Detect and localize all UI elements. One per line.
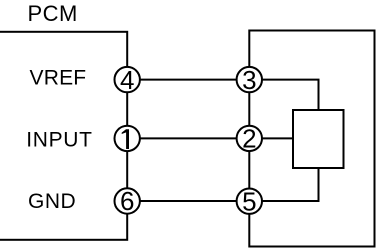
- wire pin 3 to sensor top: [249, 80, 318, 110]
- pin 4 (VREF, PCM side): [115, 65, 140, 95]
- sensor R1 (throttle position sensor): [293, 110, 344, 168]
- svg-text:6: 6: [120, 186, 134, 216]
- pin 1 (INPUT, PCM side): [115, 126, 140, 151]
- pin 2 (INPUT, sensor side): [237, 124, 262, 154]
- svg-text:INPUT: INPUT: [26, 128, 93, 151]
- svg-text:VREF: VREF: [30, 67, 87, 90]
- wire pin 2 to sensor left: [249, 137, 293, 139]
- svg-text:3: 3: [242, 65, 256, 95]
- svg-text:GND: GND: [28, 190, 76, 213]
- pin 5 (GND, sensor side): [237, 186, 262, 216]
- wire INPUT: pin 1 to pin 2: [127, 137, 249, 139]
- svg-text:4: 4: [120, 65, 134, 95]
- pin 3 (VREF, sensor side): [237, 65, 262, 95]
- wire VREF: pin 4 to pin 3: [127, 79, 249, 81]
- svg-text:5: 5: [242, 186, 256, 216]
- sensor connector box J1: [249, 31, 374, 247]
- pin 6 (GND, PCM side): [115, 186, 140, 216]
- svg-text:2: 2: [242, 124, 256, 154]
- wire GND: pin 6 to pin 5: [127, 200, 249, 202]
- PCM module box U1: [0, 32, 127, 240]
- svg-text:PCM: PCM: [28, 1, 78, 26]
- wire sensor bottom to pin 5: [249, 168, 318, 201]
